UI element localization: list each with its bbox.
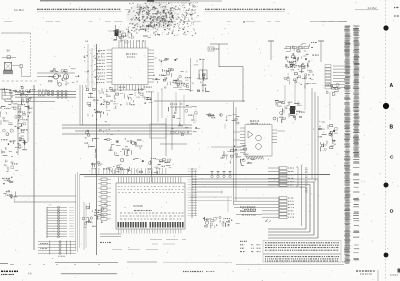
diamond marks bbox=[265, 219, 271, 223]
IC U300 teletext processor bbox=[116, 183, 185, 229]
IC U300 bottom pin stubs bbox=[119, 229, 181, 234]
antenna tee wire bbox=[210, 44, 243, 102]
dashes below IC bbox=[112, 240, 186, 250]
wire to driver pair bbox=[37, 73, 75, 77]
notes text box 2 bbox=[263, 255, 341, 263]
labels right of U300 bbox=[242, 208, 256, 215]
hatched bar below U200 bbox=[246, 156, 264, 159]
wire vertical x180 bbox=[179, 101, 181, 122]
junction dot bbox=[333, 130, 335, 132]
IC U300 top pin ticks bbox=[119, 177, 181, 183]
components below U700 bbox=[100, 87, 153, 109]
wires y196 y202 bbox=[14, 196, 76, 202]
scan dust dense core bbox=[136, 6, 175, 28]
connector column J4 bbox=[188, 168, 198, 218]
label box at tee bbox=[208, 47, 219, 51]
parts right mid bbox=[219, 114, 239, 129]
IC U700 bottom pins bbox=[115, 85, 144, 91]
IC U700 tuner-control bbox=[112, 48, 148, 85]
filter parts bbox=[166, 76, 185, 88]
rotated label on bus bbox=[305, 168, 308, 192]
wire drops IF to video bbox=[285, 76, 330, 120]
IC U200 left pins bbox=[233, 128, 245, 153]
delay line box bbox=[150, 124, 166, 138]
wire drops below U700 right bbox=[158, 88, 184, 125]
ground dashes below enclosure bbox=[2, 80, 37, 82]
wire vertical x28 bbox=[27, 100, 29, 142]
IC U700 right pins bbox=[148, 50, 154, 82]
main data bus bbox=[80, 175, 330, 177]
buffer circle A inside U200 bbox=[256, 135, 262, 141]
wire vertical x34 bbox=[33, 85, 35, 250]
header title left bbox=[37, 9, 122, 11]
wire vertical x233 bbox=[233, 102, 235, 205]
wire vertical x196 bbox=[195, 107, 197, 122]
ground return wire bottom bbox=[55, 261, 232, 264]
capacitor group C731 bbox=[219, 216, 240, 227]
long wire y101 bbox=[154, 100, 245, 102]
IC U200 right pins bbox=[272, 130, 285, 142]
diode group bottom left bbox=[82, 203, 107, 228]
wire vertical x18 bbox=[17, 104, 19, 155]
resistor row R641-R644 bbox=[286, 47, 309, 49]
loudspeaker transformer TR500 bbox=[3, 62, 13, 73]
wire vertical x172 bbox=[171, 102, 173, 150]
rotated note column 2 lower bbox=[353, 156, 360, 260]
wire vertical x321 bbox=[318, 41, 324, 62]
texture left of U700 bbox=[83, 41, 100, 88]
caption Grundig service bbox=[183, 271, 184, 273]
transistor T521 bbox=[63, 74, 68, 79]
audio input group left bbox=[0, 86, 35, 118]
wire vertical x79 bbox=[79, 174, 81, 248]
crystal Q700 bbox=[108, 25, 124, 40]
top edge smudge marks bbox=[40, 1, 222, 3]
components above U700 bbox=[113, 29, 151, 44]
header rule right of drawing bbox=[310, 21, 347, 23]
IC U700 left pin labels bbox=[96, 51, 105, 83]
wire vertical x75 bbox=[75, 174, 77, 250]
wire y144 bbox=[160, 143, 187, 145]
coupling capacitors on bus bbox=[47, 90, 67, 98]
svg-text:C: C bbox=[390, 155, 394, 161]
IF amplifier group T641 bbox=[284, 43, 319, 89]
keyboard matrix ladder upper bbox=[47, 206, 74, 238]
bus tick connections bbox=[92, 168, 166, 175]
mid dashes y197 bbox=[190, 197, 232, 212]
caption bottom left bbox=[1, 271, 32, 275]
bus to connector staircase bbox=[192, 179, 318, 238]
tone control group bbox=[86, 89, 110, 122]
wire vertical x271 bbox=[268, 41, 274, 60]
transistor pair T642 bbox=[286, 56, 312, 79]
IC U300 bottom pin comb left bbox=[118, 222, 147, 228]
notes underline bbox=[236, 263, 344, 265]
header rule dashes bbox=[125, 9, 180, 11]
wire from transformer bbox=[12, 65, 31, 77]
chroma delay group bbox=[168, 104, 200, 136]
capacitor group C730 bbox=[203, 217, 218, 229]
buffer circle B inside U200 bbox=[256, 144, 262, 150]
label W500 bbox=[100, 242, 102, 244]
connector ST2 upper bbox=[268, 167, 294, 187]
wire vertical x77 bbox=[77, 172, 79, 252]
dashed enclosure top left bbox=[1, 33, 31, 77]
audio filter group bbox=[1, 117, 27, 154]
wire y273 bbox=[61, 273, 117, 275]
vertical bus wires right bbox=[302, 88, 319, 226]
page number right bbox=[355, 7, 379, 10]
wire y107 bbox=[170, 106, 192, 108]
IC U200 top pins bbox=[248, 123, 270, 125]
bracket right of ST2 bbox=[296, 167, 298, 186]
registration dot 2 bbox=[383, 103, 389, 109]
margin note text top right bbox=[394, 8, 399, 17]
SCL SDA labels bbox=[240, 207, 256, 211]
driver stage parts bbox=[49, 68, 80, 86]
parts row mid bbox=[206, 114, 222, 118]
audio bus wires bbox=[5, 92, 76, 102]
shield box edge bbox=[80, 85, 110, 125]
capacitor row on bus bbox=[211, 172, 232, 178]
short line bottom right bbox=[377, 270, 379, 281]
notes text box 1 bbox=[263, 241, 341, 254]
wires y234 bbox=[100, 234, 121, 237]
pin label rows above U300 bbox=[118, 187, 185, 193]
wire vertical x151 bbox=[151, 92, 153, 182]
svg-text:4-2 18-2: 4-2 18-2 bbox=[14, 8, 24, 12]
header title right bbox=[205, 9, 285, 11]
part K500 bbox=[3, 156, 19, 172]
svg-text:4-2 18-2: 4-2 18-2 bbox=[186, 8, 196, 12]
svg-text:A: A bbox=[390, 83, 394, 89]
IC U300 internal pin labels bbox=[120, 213, 184, 219]
voltage regulator group IC705 bbox=[166, 59, 209, 92]
bus labels bbox=[38, 90, 47, 96]
capacitor C702 bbox=[122, 31, 128, 37]
components right of U700 bbox=[152, 58, 171, 88]
resistor ladder column bbox=[98, 178, 111, 220]
parts below U200 bbox=[240, 159, 255, 165]
pull-up resistor row bbox=[91, 158, 171, 174]
wire y147 into U200 bbox=[211, 146, 233, 148]
svg-text:IC7045: IC7045 bbox=[133, 204, 143, 208]
svg-text:B: B bbox=[390, 125, 394, 131]
svg-text:4-2 18-2: 4-2 18-2 bbox=[368, 7, 378, 10]
notes heading Hinweis bbox=[240, 240, 241, 242]
connector ST660 rows bbox=[325, 65, 345, 89]
dust wash bbox=[126, 2, 178, 30]
transistor T520 bbox=[53, 74, 58, 79]
svg-text:D: D bbox=[390, 209, 394, 215]
svg-text:50: 50 bbox=[7, 49, 11, 53]
op-amp A inside U200 bbox=[248, 131, 253, 138]
sound IF group bbox=[85, 129, 115, 158]
bottom left dashes bbox=[0, 264, 100, 266]
crystal group X641 bbox=[273, 100, 305, 123]
wire vertical x236 bbox=[235, 107, 237, 201]
wire vertical x96 bbox=[96, 44, 98, 255]
fold mark dashed line bbox=[385, 0, 387, 281]
keyboard matrix ladder lower bbox=[38, 241, 76, 257]
IC U300 bottom pin comb right bbox=[150, 222, 184, 228]
capacitor row C560 bbox=[115, 138, 143, 155]
scan dust cloud top centre bbox=[128, 2, 197, 36]
connector ST3 lower bbox=[234, 197, 294, 219]
IC U200 video processor bbox=[245, 121, 272, 156]
marks above diodes bbox=[326, 83, 341, 95]
vertical wires left of U700 bbox=[88, 44, 92, 88]
5V supply label bbox=[236, 210, 262, 215]
IC U700 left pins bbox=[107, 50, 113, 82]
rotated note column 1 bbox=[344, 26, 351, 264]
faint rule y21 bbox=[4, 20, 347, 22]
caption CUC type right bbox=[356, 271, 375, 274]
part C512 bbox=[3, 190, 17, 202]
IC U700 top pins bbox=[119, 40, 145, 48]
video bus 4 wires bbox=[62, 125, 192, 134]
registration dot 1 bbox=[383, 25, 388, 30]
attenuator R500 bbox=[2, 56, 16, 59]
wire rails x84 bbox=[84, 202, 86, 250]
registration dot 4 bbox=[384, 253, 389, 258]
wire vertical x166 bbox=[165, 118, 167, 156]
regulator vertical lead bbox=[191, 58, 208, 92]
transistor group T7060 bbox=[220, 146, 248, 164]
diode pair D650 bbox=[319, 121, 338, 152]
part R510 bbox=[2, 177, 14, 185]
registration dot 3 bbox=[384, 183, 389, 188]
crystal X641 body bbox=[290, 106, 295, 114]
caption small mid bbox=[206, 271, 208, 273]
edge mark bottom right bbox=[390, 269, 400, 276]
wire y192 bbox=[193, 191, 222, 194]
stray dot bbox=[243, 21, 244, 22]
notes legend symbols bbox=[240, 245, 261, 252]
input terminal stack bbox=[2, 90, 11, 100]
rotated note column 2 upper bbox=[353, 26, 360, 156]
